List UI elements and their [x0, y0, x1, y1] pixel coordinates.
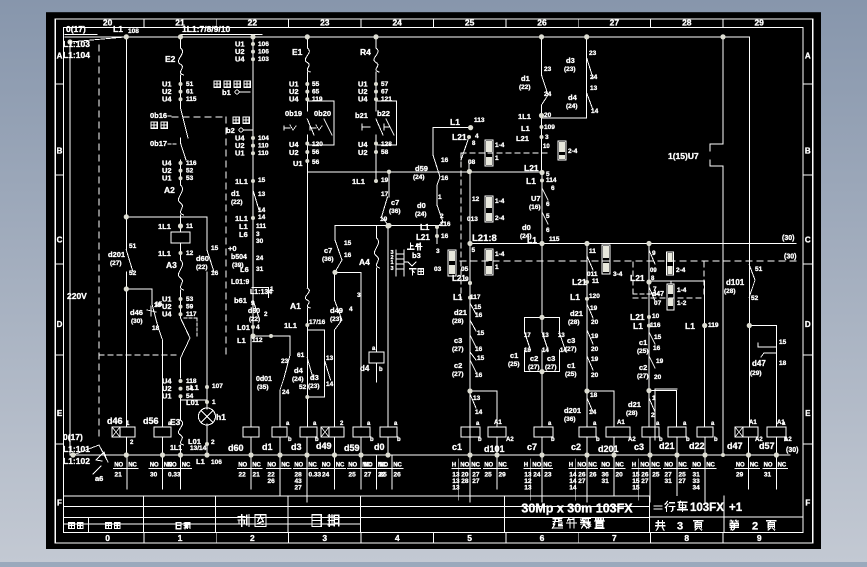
- svg-text:L1: L1: [685, 321, 695, 331]
- svg-text:NO: NO: [150, 463, 159, 469]
- svg-text:27: 27: [295, 485, 303, 492]
- svg-text:0: 0: [105, 533, 110, 543]
- svg-text:14: 14: [475, 409, 483, 416]
- svg-text:A: A: [57, 52, 63, 61]
- svg-text:NO: NO: [267, 463, 276, 469]
- svg-text:12: 12: [186, 250, 194, 257]
- svg-text:(36): (36): [564, 416, 576, 423]
- svg-text:27: 27: [364, 472, 372, 479]
- svg-text:20: 20: [544, 112, 552, 119]
- svg-text:1L1: 1L1: [235, 177, 248, 186]
- svg-text:d59: d59: [344, 443, 360, 453]
- svg-text:25: 25: [465, 18, 475, 28]
- svg-text:15: 15: [654, 334, 662, 341]
- svg-text:2: 2: [264, 311, 268, 318]
- svg-text:15: 15: [477, 330, 485, 337]
- svg-text:34: 34: [693, 485, 701, 492]
- svg-text:L6: L6: [240, 265, 249, 274]
- svg-text:07: 07: [654, 300, 662, 307]
- svg-text:b21: b21: [355, 111, 368, 120]
- svg-text:19: 19: [380, 216, 388, 223]
- svg-text:(30): (30): [131, 318, 143, 325]
- svg-text:d60: d60: [228, 443, 244, 453]
- svg-text:15: 15: [344, 240, 352, 247]
- svg-text:d56: d56: [143, 416, 159, 426]
- svg-text:d60: d60: [248, 308, 260, 315]
- svg-text:NC: NC: [393, 463, 402, 469]
- svg-text:A1: A1: [749, 420, 757, 426]
- svg-text:53: 53: [186, 175, 194, 182]
- svg-text:0b20: 0b20: [314, 109, 331, 118]
- svg-text:0b16: 0b16: [150, 111, 167, 120]
- svg-text:L21: L21: [416, 233, 430, 242]
- svg-text:NC: NC: [252, 463, 261, 469]
- svg-text:67: 67: [381, 89, 389, 96]
- svg-text:L1: L1: [196, 457, 205, 466]
- svg-text:U1: U1: [162, 174, 172, 183]
- svg-text:c2: c2: [530, 354, 538, 363]
- svg-text:c3: c3: [454, 336, 462, 345]
- svg-text:d201: d201: [564, 406, 581, 415]
- svg-text:11: 11: [592, 278, 599, 285]
- svg-text:103FX: 103FX: [690, 502, 724, 514]
- svg-text:09: 09: [650, 268, 657, 274]
- svg-text:d101: d101: [484, 444, 505, 454]
- svg-text:(30): (30): [786, 447, 798, 454]
- svg-text:B: B: [57, 147, 63, 156]
- svg-text:d21: d21: [628, 400, 641, 409]
- svg-text:b: b: [288, 437, 292, 443]
- svg-text:28: 28: [682, 18, 692, 28]
- svg-text:A1: A1: [777, 420, 785, 426]
- svg-text:13: 13: [452, 485, 460, 492]
- svg-text:E3: E3: [170, 417, 181, 427]
- svg-text:2: 2: [752, 521, 758, 533]
- svg-text:c3: c3: [547, 354, 555, 363]
- svg-text:6: 6: [540, 533, 545, 543]
- svg-text:0.33: 0.33: [168, 472, 181, 479]
- svg-text:d1: d1: [231, 189, 240, 198]
- svg-text:21: 21: [115, 472, 123, 479]
- svg-text:1L1: 1L1: [284, 321, 297, 330]
- svg-text:A2: A2: [164, 185, 175, 195]
- svg-text:(16): (16): [529, 204, 541, 211]
- svg-text:NO: NO: [664, 463, 673, 469]
- svg-text:L01: L01: [188, 437, 201, 446]
- svg-text:1-4: 1-4: [495, 198, 505, 205]
- svg-text:113: 113: [474, 117, 485, 124]
- svg-text:b1: b1: [222, 88, 231, 97]
- svg-text:L1:102: L1:102: [63, 456, 90, 466]
- svg-text:3: 3: [357, 292, 361, 299]
- svg-text:d4: d4: [360, 364, 370, 373]
- svg-text:NC: NC: [308, 463, 317, 469]
- svg-text:L1: L1: [526, 176, 536, 186]
- svg-text:d21: d21: [454, 308, 467, 317]
- svg-text:26: 26: [394, 472, 402, 479]
- svg-text:NC: NC: [615, 463, 624, 469]
- svg-text:L21: L21: [516, 134, 529, 143]
- svg-text:c2: c2: [639, 363, 647, 372]
- svg-text:(27): (27): [452, 346, 464, 353]
- svg-text:b2: b2: [226, 126, 235, 135]
- svg-text:A2: A2: [755, 437, 763, 443]
- svg-text:NO: NO: [736, 463, 745, 469]
- svg-text:23: 23: [281, 358, 289, 365]
- svg-text:23: 23: [320, 18, 330, 28]
- svg-text:E: E: [57, 409, 63, 418]
- svg-text:2-4: 2-4: [568, 148, 578, 155]
- svg-text:3-4: 3-4: [613, 271, 623, 278]
- svg-text:9: 9: [757, 533, 762, 543]
- svg-text:121: 121: [381, 96, 392, 103]
- svg-text:c2: c2: [454, 361, 462, 370]
- svg-text:d101: d101: [726, 278, 745, 287]
- svg-text:1L1: 1L1: [518, 112, 531, 121]
- svg-text:(28): (28): [452, 318, 464, 325]
- svg-text:L6: L6: [239, 230, 248, 239]
- svg-text:2: 2: [250, 533, 255, 543]
- svg-text:2: 2: [440, 213, 444, 220]
- svg-text:D: D: [805, 320, 811, 329]
- svg-text:d201: d201: [108, 250, 125, 259]
- svg-text:F: F: [57, 499, 62, 508]
- svg-text:26: 26: [268, 478, 276, 485]
- svg-text:1: 1: [178, 533, 183, 543]
- svg-text:19: 19: [590, 305, 598, 312]
- svg-text:1-4: 1-4: [677, 287, 687, 294]
- svg-text:(22): (22): [249, 316, 260, 323]
- svg-text:8: 8: [684, 533, 689, 543]
- svg-text:2: 2: [211, 439, 215, 446]
- svg-text:013: 013: [467, 216, 478, 223]
- svg-text:1-2: 1-2: [677, 300, 687, 307]
- svg-text:A4: A4: [359, 257, 370, 267]
- svg-text:56: 56: [312, 149, 320, 156]
- svg-text:c1: c1: [639, 338, 647, 347]
- svg-text:d59: d59: [415, 164, 428, 173]
- svg-text:1L1: 1L1: [158, 222, 171, 231]
- svg-text:U7: U7: [531, 194, 541, 203]
- svg-text:U4: U4: [289, 95, 299, 104]
- svg-text:31: 31: [602, 478, 610, 485]
- svg-text:13/14: 13/14: [190, 445, 207, 452]
- svg-text:18: 18: [779, 360, 787, 367]
- svg-text:(27): (27): [110, 260, 122, 267]
- svg-text:b504: b504: [231, 254, 247, 261]
- svg-text:20: 20: [591, 346, 599, 353]
- svg-text:24: 24: [533, 472, 541, 479]
- svg-text:d46: d46: [130, 308, 143, 317]
- svg-text:3: 3: [391, 266, 394, 272]
- svg-text:106: 106: [258, 49, 269, 56]
- svg-text:d3: d3: [566, 56, 575, 65]
- svg-text:0.33: 0.33: [309, 472, 322, 479]
- svg-text:L21:8: L21:8: [472, 233, 497, 244]
- svg-text:L1: L1: [450, 117, 460, 127]
- svg-text:U4: U4: [162, 310, 172, 319]
- svg-text:14: 14: [569, 485, 577, 492]
- svg-text:U1: U1: [293, 159, 303, 168]
- svg-text:NO: NO: [764, 463, 773, 469]
- svg-text:1: 1: [438, 194, 442, 201]
- svg-text:13: 13: [590, 85, 598, 92]
- svg-text:1-4: 1-4: [495, 251, 505, 258]
- svg-text:(27): (27): [565, 346, 577, 353]
- svg-text:116: 116: [650, 322, 661, 329]
- svg-text:d0: d0: [522, 223, 531, 232]
- svg-text:L01:9: L01:9: [231, 279, 249, 286]
- svg-text:b: b: [370, 437, 374, 443]
- svg-text:53: 53: [186, 296, 194, 303]
- svg-text:(27): (27): [452, 371, 464, 378]
- svg-text:(24): (24): [566, 103, 578, 110]
- svg-text:117: 117: [470, 294, 481, 301]
- svg-text:1: 1: [495, 264, 499, 271]
- svg-text:d47: d47: [752, 359, 766, 368]
- svg-text:H: H: [632, 463, 636, 469]
- svg-text:L1: L1: [420, 223, 430, 232]
- svg-text:2-4: 2-4: [495, 215, 505, 222]
- svg-text:0b19: 0b19: [285, 109, 302, 118]
- svg-text:d60: d60: [196, 254, 209, 263]
- svg-text:L1: L1: [453, 293, 463, 302]
- svg-text:52: 52: [751, 295, 759, 302]
- svg-text:L21: L21: [572, 277, 587, 287]
- svg-text:L01: L01: [237, 323, 250, 332]
- svg-text:4: 4: [349, 306, 353, 313]
- svg-text:L1: L1: [633, 321, 643, 331]
- svg-text:19: 19: [591, 356, 599, 363]
- svg-text:119: 119: [708, 322, 719, 329]
- svg-text:(27): (27): [637, 373, 649, 380]
- svg-text:20: 20: [103, 18, 113, 28]
- svg-text:22: 22: [248, 18, 258, 28]
- svg-text:NC: NC: [543, 463, 552, 469]
- svg-text:L1: L1: [521, 124, 530, 133]
- svg-text:15: 15: [258, 177, 266, 184]
- svg-text:05: 05: [461, 266, 469, 273]
- svg-text:U2: U2: [289, 148, 299, 157]
- svg-text:L1: L1: [570, 292, 580, 302]
- svg-text:23: 23: [544, 472, 552, 479]
- svg-text:c1: c1: [567, 361, 575, 370]
- svg-text:L1: L1: [527, 235, 537, 245]
- svg-text:13: 13: [326, 355, 334, 362]
- svg-text:13: 13: [258, 191, 266, 198]
- svg-text:220V: 220V: [67, 291, 87, 301]
- svg-text:A1: A1: [290, 301, 301, 311]
- svg-text:NO: NO: [322, 463, 331, 469]
- svg-text:L1: L1: [237, 336, 246, 345]
- svg-text:24: 24: [256, 255, 264, 262]
- svg-text:U2: U2: [358, 148, 368, 157]
- svg-text:(28): (28): [626, 410, 638, 417]
- svg-text:b: b: [596, 437, 600, 443]
- svg-text:(25): (25): [637, 348, 649, 355]
- svg-text:NC: NC: [651, 463, 660, 469]
- svg-text:b3: b3: [412, 251, 421, 260]
- svg-text:3: 3: [436, 248, 440, 255]
- svg-text:116: 116: [440, 221, 451, 228]
- svg-text:(27): (27): [545, 364, 557, 371]
- svg-text:13: 13: [473, 395, 481, 402]
- svg-text:(22): (22): [519, 84, 531, 91]
- svg-text:NO: NO: [168, 463, 177, 469]
- svg-text:13: 13: [542, 333, 549, 339]
- svg-text:L21: L21: [524, 163, 539, 173]
- svg-text:+1: +1: [729, 502, 743, 514]
- svg-text:19: 19: [381, 177, 389, 184]
- svg-text:23: 23: [544, 66, 552, 73]
- svg-text:15: 15: [211, 245, 219, 252]
- svg-text:d201: d201: [598, 444, 619, 454]
- svg-text:c3: c3: [634, 442, 644, 452]
- svg-text:61: 61: [297, 352, 305, 359]
- svg-text:22: 22: [239, 472, 247, 479]
- svg-text:106: 106: [211, 459, 222, 466]
- svg-text:c7: c7: [324, 246, 332, 255]
- svg-text:115: 115: [186, 96, 197, 103]
- svg-text:L1:101: L1:101: [63, 444, 90, 454]
- svg-text:1: 1: [652, 395, 656, 402]
- svg-text:120: 120: [312, 141, 323, 148]
- svg-text:58: 58: [381, 149, 389, 156]
- svg-text:3: 3: [256, 231, 260, 238]
- svg-text:20: 20: [591, 372, 599, 379]
- svg-text:NC: NC: [750, 463, 759, 469]
- svg-text:(22): (22): [196, 264, 208, 271]
- svg-text:61: 61: [186, 89, 194, 96]
- svg-text:27: 27: [472, 478, 480, 485]
- svg-text:d22: d22: [689, 441, 705, 451]
- svg-text:U4: U4: [162, 95, 172, 104]
- svg-text:NC: NC: [281, 463, 290, 469]
- svg-text:19: 19: [656, 358, 664, 365]
- svg-text:b: b: [659, 437, 663, 443]
- svg-text:4: 4: [475, 133, 479, 140]
- svg-text:NC: NC: [706, 463, 715, 469]
- svg-text:16: 16: [344, 252, 352, 259]
- svg-text:59: 59: [186, 304, 194, 311]
- svg-text:(30): (30): [782, 235, 794, 242]
- svg-text:15: 15: [474, 304, 482, 311]
- svg-text:14: 14: [258, 214, 266, 221]
- svg-text:27: 27: [578, 478, 586, 485]
- svg-text:L1: L1: [113, 24, 123, 34]
- svg-text:NO: NO: [379, 463, 388, 469]
- svg-text:NO: NO: [348, 463, 357, 469]
- svg-text:52: 52: [186, 168, 194, 175]
- svg-text:0(17): 0(17): [66, 24, 86, 34]
- svg-text:NC: NC: [778, 463, 787, 469]
- svg-text:NO: NO: [460, 463, 469, 469]
- svg-text:A3: A3: [166, 260, 177, 270]
- svg-text:c2: c2: [571, 442, 581, 452]
- svg-text:27: 27: [641, 478, 649, 485]
- svg-text:1(15)U7: 1(15)U7: [668, 151, 699, 161]
- svg-text:d0: d0: [417, 201, 426, 210]
- svg-text:d4: d4: [568, 93, 578, 102]
- svg-text:NO: NO: [577, 463, 586, 469]
- svg-text:14: 14: [258, 207, 266, 214]
- svg-text:56: 56: [312, 159, 320, 166]
- svg-text:3: 3: [677, 521, 683, 533]
- svg-text:23: 23: [589, 50, 597, 57]
- svg-text:b: b: [478, 437, 482, 443]
- svg-text:11: 11: [186, 223, 193, 230]
- svg-text:13: 13: [524, 485, 532, 492]
- svg-text:NO: NO: [364, 463, 373, 469]
- svg-text:25: 25: [380, 472, 388, 479]
- svg-text:h1: h1: [216, 412, 226, 422]
- svg-text:112: 112: [252, 337, 263, 344]
- svg-text:H: H: [452, 463, 456, 469]
- svg-text:0d01: 0d01: [256, 376, 272, 383]
- svg-text:6: 6: [551, 185, 555, 192]
- svg-text:C: C: [57, 236, 63, 245]
- svg-text:17/16: 17/16: [309, 319, 326, 326]
- svg-text:d3: d3: [310, 373, 319, 382]
- svg-text:109: 109: [544, 124, 555, 131]
- svg-text:31: 31: [256, 266, 264, 273]
- svg-text:NC: NC: [182, 463, 191, 469]
- svg-text:13: 13: [558, 333, 565, 339]
- svg-text:L21: L21: [630, 273, 645, 283]
- svg-text:16: 16: [441, 175, 449, 182]
- svg-text:31: 31: [764, 472, 772, 479]
- svg-text:d46: d46: [107, 416, 123, 426]
- svg-text:26: 26: [537, 18, 547, 28]
- svg-text:25: 25: [485, 472, 493, 479]
- svg-text:R4: R4: [360, 47, 371, 57]
- svg-text:24: 24: [392, 18, 402, 28]
- svg-text:A1: A1: [617, 420, 625, 426]
- svg-text:0b17: 0b17: [150, 139, 167, 148]
- svg-text:3: 3: [545, 134, 549, 141]
- svg-text:c3: c3: [567, 336, 575, 345]
- svg-text:31: 31: [665, 478, 673, 485]
- svg-text:1L1: 1L1: [170, 445, 182, 452]
- svg-text:17: 17: [381, 191, 389, 198]
- svg-text:5: 5: [472, 247, 476, 254]
- svg-text:(22): (22): [231, 199, 243, 206]
- svg-text:H: H: [569, 463, 573, 469]
- svg-text:29: 29: [736, 472, 744, 479]
- svg-text:9: 9: [652, 250, 656, 257]
- svg-text:27: 27: [679, 478, 687, 485]
- svg-text:(24): (24): [413, 174, 425, 181]
- svg-text:115: 115: [549, 236, 560, 243]
- svg-text:NO: NO: [532, 463, 541, 469]
- svg-text:NC: NC: [336, 463, 345, 469]
- svg-text:24: 24: [322, 472, 330, 479]
- svg-text:30: 30: [256, 238, 264, 245]
- svg-text:108: 108: [128, 28, 139, 35]
- svg-text:117: 117: [186, 311, 197, 318]
- svg-text:(24): (24): [415, 211, 427, 218]
- svg-text:c7: c7: [391, 198, 399, 207]
- svg-text:c1: c1: [452, 442, 462, 452]
- svg-text:c1: c1: [510, 351, 518, 360]
- svg-text:24: 24: [282, 389, 290, 396]
- svg-text:15: 15: [632, 485, 640, 492]
- svg-text:U4: U4: [235, 55, 245, 64]
- svg-text:1L1: 1L1: [158, 249, 171, 258]
- svg-text:b: b: [551, 437, 555, 443]
- svg-text:4: 4: [256, 324, 260, 331]
- svg-text:08: 08: [468, 159, 476, 166]
